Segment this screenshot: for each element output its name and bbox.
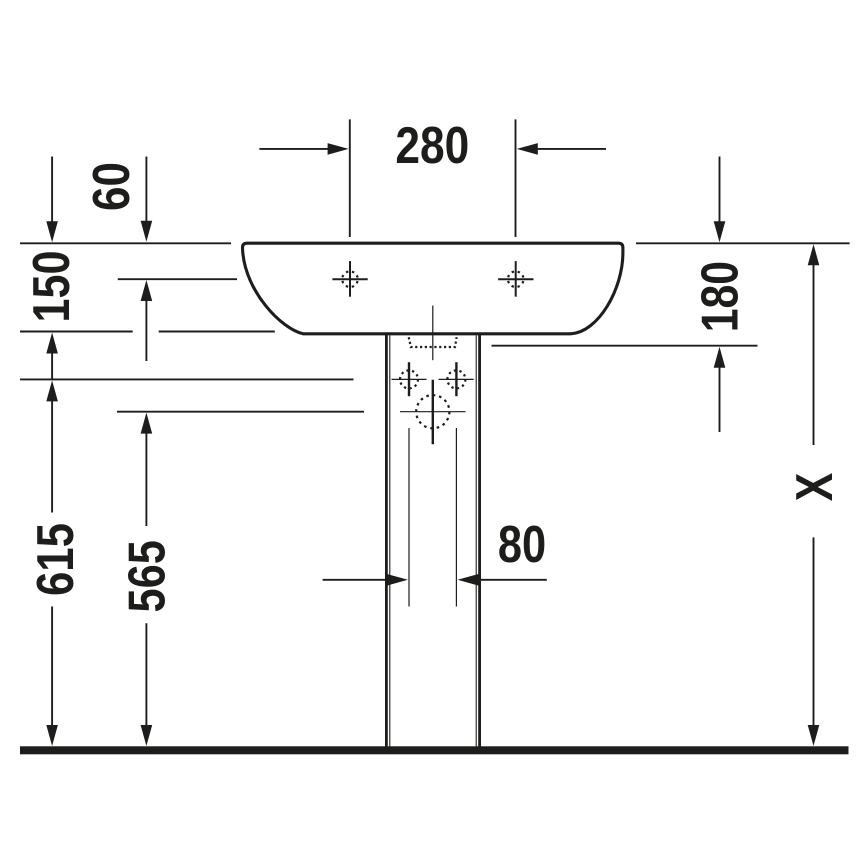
dim 150: bottom arrow (points up to basin bottom line) — [46, 333, 58, 354]
dim 280: right arrow — [537, 148, 606, 150]
dim 615: lower shaft + down arrow at floor — [51, 607, 53, 727]
dim 80: right arrow — [480, 579, 547, 581]
right fixing hole in pedestal — [439, 362, 474, 396]
left faucet hole dotted circle — [342, 271, 358, 287]
dim 60/565 line (x=146.4): top tail with down arrow — [145, 157, 147, 223]
extension line: faucet hole axis, left — [118, 278, 237, 280]
svg-text:X: X — [786, 472, 844, 501]
svg-text:565: 565 — [119, 540, 177, 612]
dim 280: left arrow — [259, 148, 328, 150]
dim 280: right extension line — [515, 119, 517, 237]
dim 80: left arrow — [323, 579, 387, 581]
svg-text:280: 280 — [395, 117, 469, 175]
svg-text:60: 60 — [83, 162, 141, 211]
dashed mounting bracket in pedestal — [409, 337, 457, 347]
dim 565: lower shaft + down arrow at floor — [145, 623, 147, 726]
left fixing hole in pedestal — [392, 362, 427, 396]
drain hole in pedestal — [400, 380, 466, 445]
extension line: basin top, right — [636, 242, 850, 244]
dim 80: right extension line — [455, 428, 457, 607]
svg-text:80: 80 — [498, 516, 546, 574]
pedestal right outer edge — [478, 334, 481, 747]
dim 565: top arrow (points up to drain axis line) — [141, 413, 153, 434]
svg-text:180: 180 — [692, 261, 750, 332]
right faucet hole dotted circle — [508, 271, 524, 287]
dim 280: left extension line — [349, 119, 351, 237]
svg-text:615: 615 — [27, 523, 85, 596]
extension line: basin top, left — [20, 242, 231, 244]
dim 60: bottom arrow (points up to faucet axis line) — [141, 280, 153, 301]
right faucet hole cross — [498, 261, 533, 297]
washbasin outline — [243, 243, 623, 334]
extension line: drain hole axis, left — [117, 411, 364, 413]
pedestal right inner edge — [475, 336, 477, 747]
pedestal left inner edge — [389, 336, 391, 747]
dim X line (x=813.5): top arrow pointing up to basin-top line — [808, 244, 820, 265]
left faucet hole cross — [332, 261, 367, 297]
pedestal left outer edge — [385, 334, 388, 747]
dim X: lower shaft + down arrow at floor — [813, 537, 815, 726]
dim 80: left extension line — [408, 428, 410, 607]
extension line: bracket bottom, right — [492, 345, 758, 347]
dim 150/615 line (x=52) : top tail with down arrow — [51, 157, 53, 224]
dim 180 line (x=719.5): top tail with down arrow — [719, 157, 721, 223]
dim 615: top arrow (points up to fixing-hole line) — [46, 380, 58, 401]
center line of basin/pedestal — [432, 306, 434, 361]
floor line — [20, 746, 849, 754]
extension line: fixing holes axis, left — [20, 378, 354, 380]
dim 180: bottom arrow (points up to bracket line) — [714, 347, 726, 368]
extension line: basin bottom, left (two segments) — [20, 331, 133, 333]
svg-text:150: 150 — [23, 251, 81, 323]
